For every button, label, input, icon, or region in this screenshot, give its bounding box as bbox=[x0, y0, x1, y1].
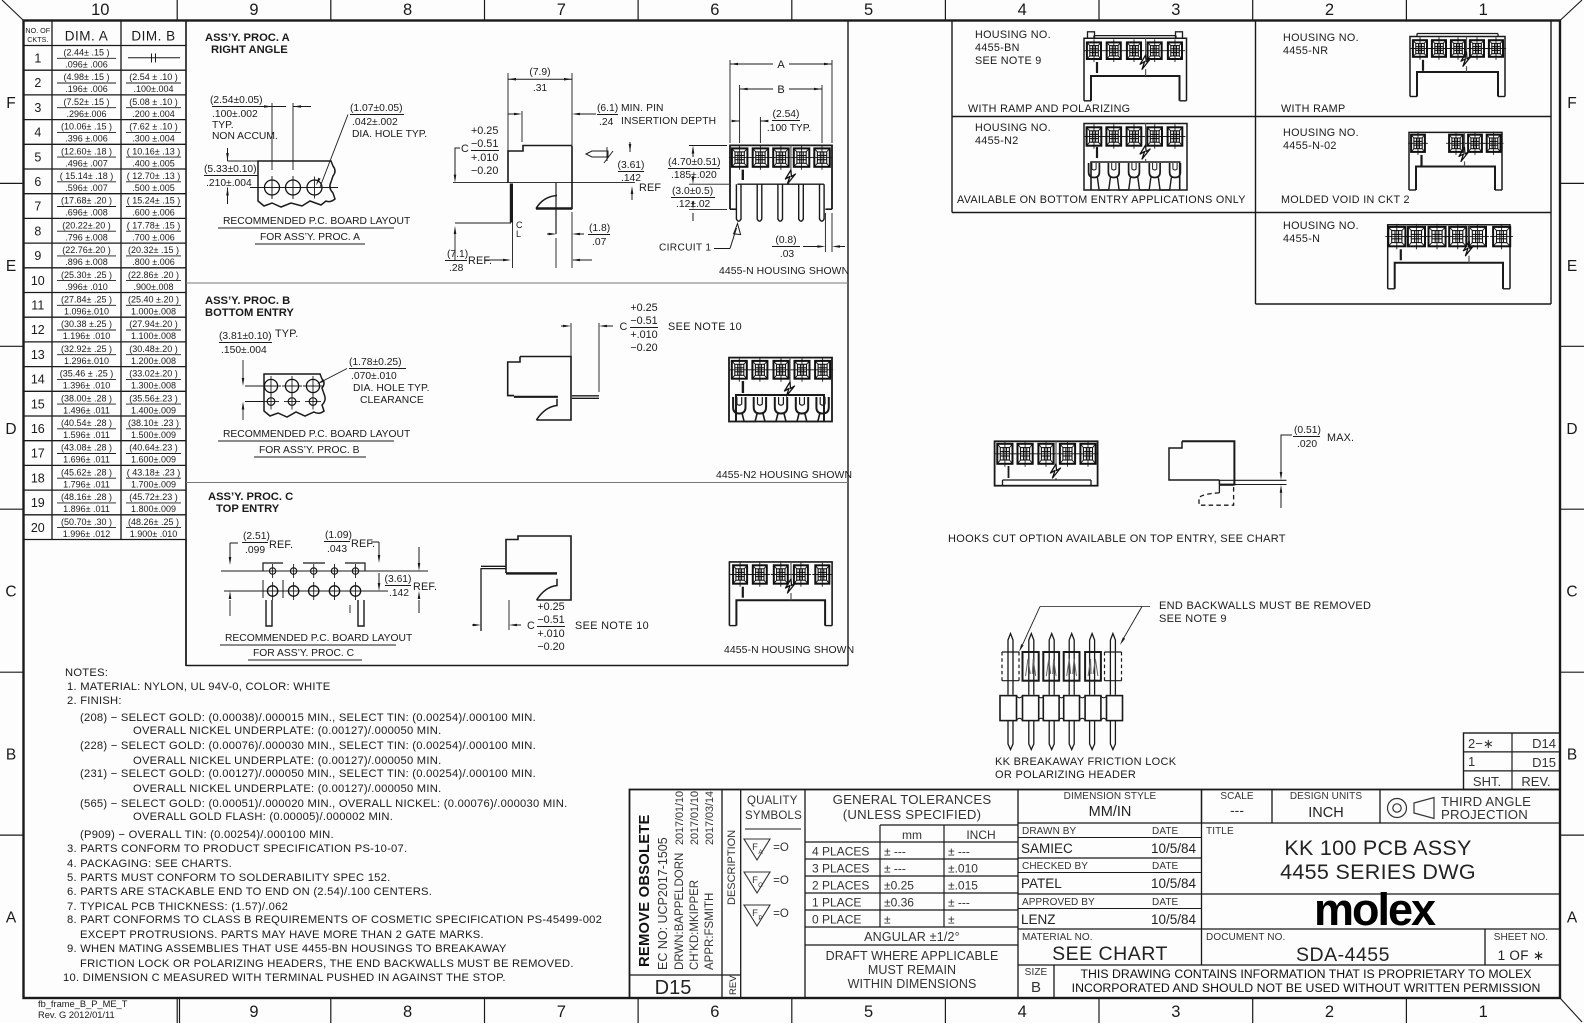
svg-text:1.900± .010: 1.900± .010 bbox=[130, 529, 177, 539]
svg-text:(4.98± .15 ): (4.98± .15 ) bbox=[64, 72, 110, 82]
corner diagonal bottom-right bbox=[1560, 998, 1582, 1022]
pin length arrow bbox=[455, 222, 511, 224]
svg-text:(35.46 ± .25 ): (35.46 ± .25 ) bbox=[60, 369, 113, 379]
svg-text:.800 ±.006: .800 ±.006 bbox=[132, 257, 174, 267]
housing 4455-NR drawing bbox=[1417, 72, 1498, 97]
svg-text:KK BREAKAWAY FRICTION LOCK: KK BREAKAWAY FRICTION LOCK bbox=[995, 756, 1177, 768]
svg-text:WITH RAMP AND POLARIZING: WITH RAMP AND POLARIZING bbox=[968, 103, 1130, 115]
svg-text:.196± .006: .196± .006 bbox=[65, 84, 107, 94]
BN ramp rail bbox=[1094, 35, 1176, 37]
svg-text:.496± .007: .496± .007 bbox=[65, 158, 107, 168]
svg-text:CIRCUIT 1: CIRCUIT 1 bbox=[659, 243, 711, 254]
svg-text:INCH: INCH bbox=[966, 828, 995, 842]
svg-text:D14: D14 bbox=[1532, 736, 1556, 751]
svg-text:.28: .28 bbox=[449, 263, 464, 274]
svg-text:1.596± .011: 1.596± .011 bbox=[63, 430, 110, 440]
svg-text:.100 TYP.: .100 TYP. bbox=[767, 123, 811, 134]
svg-text:CLEARANCE: CLEARANCE bbox=[360, 395, 424, 406]
svg-text:±.010: ±.010 bbox=[948, 862, 978, 876]
svg-text:(7.9): (7.9) bbox=[529, 67, 550, 78]
svg-text:C: C bbox=[5, 584, 16, 601]
svg-text:L: L bbox=[516, 229, 521, 239]
svg-text:E: E bbox=[6, 258, 16, 275]
svg-text:1: 1 bbox=[1479, 1003, 1488, 1021]
shoulder line bbox=[737, 183, 824, 185]
svg-text:(12.60± .18 ): (12.60± .18 ) bbox=[61, 146, 112, 156]
svg-text:2: 2 bbox=[1325, 1003, 1334, 1021]
third angle projection symbol bbox=[1388, 799, 1407, 818]
svg-text:(50.70± .30 ): (50.70± .30 ) bbox=[61, 517, 112, 527]
svg-text:FOR ASS’Y. PROC. A: FOR ASS’Y. PROC. A bbox=[260, 232, 360, 243]
svg-text:10/5/84: 10/5/84 bbox=[1151, 876, 1197, 891]
svg-text:REF.: REF. bbox=[413, 581, 437, 593]
svg-text:D: D bbox=[5, 421, 16, 438]
right arrows rows bbox=[418, 547, 420, 563]
svg-text:−0.20: −0.20 bbox=[537, 641, 564, 653]
svg-text:(38.10± .23 ): (38.10± .23 ) bbox=[128, 418, 179, 428]
svg-text:.020: .020 bbox=[1297, 439, 1317, 450]
hole row centerline bbox=[250, 187, 338, 189]
assembly procedures box bbox=[847, 21, 849, 666]
svg-text:2: 2 bbox=[1325, 1, 1334, 19]
svg-text:(40.54± .28 ): (40.54± .28 ) bbox=[61, 418, 112, 428]
svg-text:3. PARTS CONFORM TO PRODUCT SP: 3. PARTS CONFORM TO PRODUCT SPECIFICATIO… bbox=[67, 843, 407, 855]
svg-text:OVERALL NICKEL UNDERPLATE: (0.: OVERALL NICKEL UNDERPLATE: (0.00127)/.00… bbox=[133, 725, 441, 737]
svg-text:HOUSING NO.: HOUSING NO. bbox=[1283, 32, 1359, 44]
svg-text:1 PLACE: 1 PLACE bbox=[812, 896, 861, 910]
svg-text:±.015: ±.015 bbox=[948, 879, 978, 893]
svg-text:−0.20: −0.20 bbox=[630, 342, 657, 354]
svg-text:DIA. HOLE TYP.: DIA. HOLE TYP. bbox=[353, 383, 430, 394]
bent pin vertical bbox=[555, 183, 557, 234]
svg-text:(20.22±.20 ): (20.22±.20 ) bbox=[62, 220, 110, 230]
svg-text:molex: molex bbox=[1314, 884, 1436, 935]
svg-text:7: 7 bbox=[557, 1003, 566, 1021]
svg-text:.300 ±.004: .300 ±.004 bbox=[132, 134, 174, 144]
svg-text:+.010: +.010 bbox=[630, 329, 657, 341]
svg-text:( 15.14± .18 ): ( 15.14± .18 ) bbox=[60, 171, 113, 181]
svg-text:REF: REF bbox=[639, 182, 661, 194]
NR ramp rail bbox=[1417, 33, 1498, 35]
svg-text:(25.30± .25 ): (25.30± .25 ) bbox=[61, 270, 112, 280]
svg-text:B: B bbox=[6, 747, 16, 764]
svg-text:17: 17 bbox=[31, 447, 45, 461]
svg-text:=O: =O bbox=[773, 875, 789, 887]
svg-text:DATE: DATE bbox=[1152, 826, 1179, 837]
svg-text:.210±.004: .210±.004 bbox=[206, 178, 252, 189]
svg-text:4: 4 bbox=[34, 126, 41, 140]
svg-text:NOTES:: NOTES: bbox=[65, 667, 108, 679]
svg-text:15: 15 bbox=[31, 397, 45, 411]
zone row ticks right bbox=[1560, 182, 1584, 184]
upper small holes bbox=[269, 568, 275, 574]
svg-text:C: C bbox=[758, 882, 763, 889]
header pin 2 bbox=[1029, 634, 1034, 695]
svg-text:SHEET NO.: SHEET NO. bbox=[1494, 932, 1549, 943]
svg-text:−0.51: −0.51 bbox=[471, 138, 498, 150]
revision table bbox=[1464, 733, 1561, 790]
svg-text:(2.51): (2.51) bbox=[243, 531, 270, 542]
svg-text:DOCUMENT NO.: DOCUMENT NO. bbox=[1206, 932, 1285, 943]
svg-text:ASS’Y. PROC. B: ASS’Y. PROC. B bbox=[205, 295, 290, 307]
n2 lower cavity structure bbox=[736, 395, 824, 422]
svg-text:5: 5 bbox=[34, 150, 41, 164]
svg-text:1.996± .012: 1.996± .012 bbox=[63, 529, 110, 539]
svg-text:3: 3 bbox=[1171, 1003, 1180, 1021]
svg-text:3 PLACES: 3 PLACES bbox=[812, 862, 869, 876]
svg-text:(231) − SELECT GOLD: (0.00127): (231) − SELECT GOLD: (0.00127)/.000050 M… bbox=[80, 768, 536, 780]
svg-text:HOUSING NO.: HOUSING NO. bbox=[1283, 127, 1359, 139]
svg-text:DESIGN UNITS: DESIGN UNITS bbox=[1290, 791, 1363, 802]
proc A board layout view bbox=[258, 161, 335, 207]
svg-text:1.396± .010: 1.396± .010 bbox=[63, 381, 110, 391]
svg-text:.396 ±.006: .396 ±.006 bbox=[65, 134, 107, 144]
pcb vertical lines proc C bbox=[480, 568, 482, 631]
svg-text:TOP ENTRY: TOP ENTRY bbox=[216, 503, 280, 515]
svg-text:INCH: INCH bbox=[1308, 805, 1343, 821]
svg-text:(27.84± .25 ): (27.84± .25 ) bbox=[61, 295, 112, 305]
svg-text:±0.36: ±0.36 bbox=[884, 896, 914, 910]
svg-text:7: 7 bbox=[557, 1, 566, 19]
svg-text:(3.61): (3.61) bbox=[618, 160, 645, 171]
clearance holes row bbox=[264, 379, 277, 392]
svg-text:SEE NOTE 9: SEE NOTE 9 bbox=[1159, 613, 1227, 625]
svg-text:2017/03/14: 2017/03/14 bbox=[704, 791, 716, 845]
proc C front view 4455-N bbox=[736, 600, 825, 625]
svg-text:(38.00± .28 ): (38.00± .28 ) bbox=[61, 393, 112, 403]
svg-text:6: 6 bbox=[710, 1, 719, 19]
svg-text:.070±.010: .070±.010 bbox=[351, 371, 397, 382]
hook cut side view bbox=[1182, 441, 1234, 485]
svg-text:RIGHT ANGLE: RIGHT ANGLE bbox=[211, 44, 288, 56]
svg-text:1: 1 bbox=[1468, 754, 1475, 769]
svg-text:(4.70±0.51): (4.70±0.51) bbox=[668, 157, 721, 168]
pcb ref line bbox=[453, 182, 635, 184]
lower big holes bbox=[267, 586, 277, 596]
REV cell bbox=[722, 974, 741, 976]
svg-text:6: 6 bbox=[34, 175, 41, 189]
separator proc B / proc C bbox=[186, 482, 848, 484]
svg-text:1.300±.008: 1.300±.008 bbox=[131, 381, 176, 391]
svg-text:SDA-4455: SDA-4455 bbox=[1296, 944, 1390, 966]
svg-text:16: 16 bbox=[31, 422, 45, 436]
svg-text:SCALE: SCALE bbox=[1220, 791, 1254, 802]
pin insertion depth line bbox=[521, 111, 523, 142]
svg-text:5. PARTS MUST CONFORM TO SOLDE: 5. PARTS MUST CONFORM TO SOLDERABILITY S… bbox=[67, 872, 390, 884]
svg-text:4: 4 bbox=[1018, 1003, 1027, 1021]
svg-text:14: 14 bbox=[31, 373, 45, 387]
svg-text:SEE CHART: SEE CHART bbox=[1052, 943, 1168, 965]
svg-text:.996± .010: .996± .010 bbox=[65, 282, 107, 292]
svg-text:8: 8 bbox=[403, 1003, 412, 1021]
svg-text:3: 3 bbox=[34, 101, 41, 115]
svg-text:4455-N HOUSING SHOWN: 4455-N HOUSING SHOWN bbox=[724, 645, 854, 656]
svg-text:MOLDED VOID IN CKT 2: MOLDED VOID IN CKT 2 bbox=[1281, 194, 1410, 206]
svg-text:4455-N2 HOUSING SHOWN: 4455-N2 HOUSING SHOWN bbox=[716, 470, 852, 481]
svg-text:(6.1): (6.1) bbox=[597, 103, 618, 114]
dim A bbox=[729, 60, 731, 143]
svg-text:4455-NR: 4455-NR bbox=[1283, 45, 1328, 57]
bottom extension lines bbox=[555, 238, 557, 268]
solid backwalls bbox=[1023, 652, 1039, 681]
svg-text:P: P bbox=[758, 915, 762, 922]
svg-text:4455-N-02: 4455-N-02 bbox=[1283, 140, 1337, 152]
separator proc A / proc B bbox=[186, 282, 848, 284]
svg-text:2017/01/10: 2017/01/10 bbox=[674, 791, 686, 845]
zone row ticks left bbox=[0, 182, 24, 184]
svg-text:MATERIAL NO.: MATERIAL NO. bbox=[1022, 932, 1093, 943]
dimension table for DIM A / DIM B bbox=[51, 21, 53, 540]
svg-text:9: 9 bbox=[249, 1003, 258, 1021]
svg-text:4 PLACES: 4 PLACES bbox=[812, 845, 869, 859]
svg-text:( 17.78± .15 ): ( 17.78± .15 ) bbox=[127, 220, 180, 230]
svg-text:4455-N2: 4455-N2 bbox=[975, 135, 1019, 147]
pcb edge lines hooks view bbox=[1219, 479, 1286, 481]
svg-text:4: 4 bbox=[1018, 1, 1027, 19]
svg-text:TITLE: TITLE bbox=[1206, 826, 1234, 837]
svg-text:OVERALL NICKEL UNDERPLATE: (0.: OVERALL NICKEL UNDERPLATE: (0.00127)/.00… bbox=[133, 755, 441, 767]
svg-text:2. FINISH:: 2. FINISH: bbox=[67, 695, 122, 707]
svg-text:−0.51: −0.51 bbox=[630, 315, 657, 327]
svg-text:QUALITY: QUALITY bbox=[747, 795, 798, 807]
leader right backwall bbox=[1122, 607, 1142, 642]
svg-text:5: 5 bbox=[864, 1, 873, 19]
svg-text:(27.94±.20 ): (27.94±.20 ) bbox=[129, 319, 177, 329]
svg-text:WITH RAMP: WITH RAMP bbox=[1281, 103, 1345, 115]
svg-text:3: 3 bbox=[1171, 1, 1180, 19]
svg-text:1.096±.010: 1.096±.010 bbox=[64, 307, 109, 317]
svg-text:(1.8): (1.8) bbox=[589, 223, 610, 234]
svg-text:---: --- bbox=[1230, 802, 1244, 818]
zone column ticks bottom bbox=[176, 998, 178, 1023]
svg-text:1.000±.008: 1.000±.008 bbox=[131, 307, 176, 317]
svg-text:A: A bbox=[1567, 910, 1578, 927]
svg-text:DATE: DATE bbox=[1152, 861, 1179, 872]
svg-text:( 15.24± .15 ): ( 15.24± .15 ) bbox=[127, 196, 180, 206]
break bolt bbox=[790, 145, 792, 170]
svg-text:(2.54 ± .10 ): (2.54 ± .10 ) bbox=[129, 72, 177, 82]
svg-text:.600 ±.006: .600 ±.006 bbox=[132, 208, 174, 218]
svg-text:(7.1): (7.1) bbox=[447, 249, 468, 260]
svg-text:INSERTION DEPTH: INSERTION DEPTH bbox=[621, 116, 716, 127]
svg-text:1.296±.010: 1.296±.010 bbox=[64, 356, 109, 366]
svg-text:± ---: ± --- bbox=[884, 862, 906, 876]
title block column EC bbox=[721, 790, 723, 999]
svg-text:PROJECTION: PROJECTION bbox=[1441, 807, 1528, 822]
corner diagonal top-left bbox=[2, 0, 24, 21]
svg-text:F: F bbox=[6, 95, 15, 112]
svg-text:DIMENSION STYLE: DIMENSION STYLE bbox=[1064, 791, 1157, 802]
svg-text:REMOVE OBSOLETE: REMOVE OBSOLETE bbox=[637, 814, 653, 967]
svg-text:THIS DRAWING CONTAINS INFORMAT: THIS DRAWING CONTAINS INFORMATION THAT I… bbox=[1081, 967, 1532, 981]
svg-text:.500 ±.005: .500 ±.005 bbox=[132, 183, 174, 193]
svg-text:4455-N: 4455-N bbox=[1283, 233, 1320, 245]
pin holes row bbox=[267, 398, 275, 406]
svg-text:A: A bbox=[758, 849, 763, 856]
front view terminal squares bbox=[729, 157, 750, 159]
svg-text:(30.48±.20 ): (30.48±.20 ) bbox=[129, 344, 177, 354]
svg-text:.043: .043 bbox=[327, 544, 347, 555]
svg-text:D: D bbox=[1566, 421, 1577, 438]
housing 4455-N-02 drawing bbox=[1416, 167, 1495, 191]
svg-text:4455 SERIES DWG: 4455 SERIES DWG bbox=[1280, 860, 1476, 884]
svg-text:.099: .099 bbox=[245, 545, 265, 556]
svg-text:.150±.004: .150±.004 bbox=[221, 345, 267, 356]
dim arrows 5.33 bbox=[227, 148, 229, 161]
title block rows bbox=[1018, 822, 1560, 824]
svg-text:(228) − SELECT GOLD: (0.00076): (228) − SELECT GOLD: (0.00076)/.000030 M… bbox=[80, 740, 536, 752]
svg-text:REV: REV bbox=[728, 975, 739, 995]
dim 7.9 top bbox=[507, 73, 509, 151]
svg-text:(40.64±.23 ): (40.64±.23 ) bbox=[129, 443, 177, 453]
svg-text:7: 7 bbox=[34, 200, 41, 214]
svg-text:1: 1 bbox=[1479, 1, 1488, 19]
proc B board layout view bbox=[264, 374, 325, 417]
svg-text:1. MATERIAL: NYLON, UL 94V-0,: 1. MATERIAL: NYLON, UL 94V-0, COLOR: WHI… bbox=[67, 681, 331, 693]
svg-text:10/5/84: 10/5/84 bbox=[1151, 912, 1197, 927]
svg-text:1.696± .011: 1.696± .011 bbox=[63, 455, 110, 465]
svg-text:1.400±.009: 1.400±.009 bbox=[131, 405, 176, 415]
svg-text:HOUSING NO.: HOUSING NO. bbox=[1283, 220, 1359, 232]
svg-text:(30.38 ±.25 ): (30.38 ±.25 ) bbox=[61, 319, 112, 329]
svg-text:2 PLACES: 2 PLACES bbox=[812, 879, 869, 893]
svg-text:(45.62± .28 ): (45.62± .28 ) bbox=[61, 467, 112, 477]
proc A side view housing bbox=[508, 146, 572, 209]
svg-text:RECOMMENDED P.C. BOARD LAYOUT: RECOMMENDED P.C. BOARD LAYOUT bbox=[223, 429, 411, 440]
svg-text:ASS’Y. PROC. C: ASS’Y. PROC. C bbox=[208, 491, 293, 503]
svg-text:.200 ±.004: .200 ±.004 bbox=[132, 109, 174, 119]
svg-text:± ---: ± --- bbox=[884, 845, 906, 859]
svg-text:(43.08± .28 ): (43.08± .28 ) bbox=[61, 443, 112, 453]
circuit 1 tick bbox=[742, 170, 744, 180]
svg-text:C: C bbox=[1566, 584, 1577, 601]
dim B bbox=[739, 85, 741, 143]
title block outline bbox=[630, 790, 1561, 999]
backwall dashed end 2 bbox=[1105, 652, 1122, 681]
svg-text:ANGULAR ±1/2°: ANGULAR ±1/2° bbox=[864, 930, 960, 944]
svg-text:(P909) − OVERALL TIN: (0.00254: (P909) − OVERALL TIN: (0.00254)/.000100 … bbox=[80, 829, 334, 841]
dim 6.1 min pin insertion bbox=[576, 113, 596, 115]
svg-text:SAMIEC: SAMIEC bbox=[1021, 841, 1073, 856]
svg-text:7. TYPICAL PCB THICKNESS: (1.5: 7. TYPICAL PCB THICKNESS: (1.57)/.062 bbox=[67, 901, 288, 913]
lower arrows bbox=[229, 600, 231, 616]
svg-text:.100±.004: .100±.004 bbox=[134, 84, 174, 94]
solder pin thick bbox=[510, 184, 513, 223]
svg-text:DRWN:BAPPELDORN: DRWN:BAPPELDORN bbox=[674, 853, 686, 970]
svg-text:+0.25: +0.25 bbox=[471, 125, 498, 137]
svg-text:(5.33±0.10): (5.33±0.10) bbox=[204, 164, 257, 175]
svg-text:10/5/84: 10/5/84 bbox=[1151, 841, 1197, 856]
svg-text:(17.68± .20 ): (17.68± .20 ) bbox=[61, 196, 112, 206]
svg-text:DIM. B: DIM. B bbox=[131, 29, 175, 44]
holes bbox=[265, 180, 280, 195]
svg-text:2017/01/10: 2017/01/10 bbox=[689, 791, 701, 845]
svg-text:± ---: ± --- bbox=[948, 845, 970, 859]
svg-text:(7.52± .15 ): (7.52± .15 ) bbox=[64, 97, 110, 107]
svg-text:13: 13 bbox=[31, 348, 45, 362]
svg-text:C: C bbox=[461, 143, 469, 155]
svg-text:C: C bbox=[527, 620, 535, 632]
svg-text:.100±.002: .100±.002 bbox=[212, 109, 258, 120]
svg-text:+0.25: +0.25 bbox=[537, 601, 564, 613]
pin symbol small bbox=[586, 151, 608, 157]
proc B side view bbox=[508, 357, 571, 421]
svg-text:fb_frame_B_P_ME_T: fb_frame_B_P_ME_T bbox=[38, 999, 128, 1009]
svg-text:(1.09): (1.09) bbox=[325, 530, 352, 541]
hooks cut housing front view bbox=[995, 441, 1098, 485]
housing 4455-N2 drawing bbox=[1084, 124, 1187, 191]
svg-text:9. WHEN MATING ASSEMBLIES THAT: 9. WHEN MATING ASSEMBLIES THAT USE 4455-… bbox=[67, 943, 507, 955]
svg-text:CKTS.: CKTS. bbox=[27, 35, 48, 44]
svg-text:SIZE: SIZE bbox=[1025, 967, 1048, 978]
svg-text:.31: .31 bbox=[533, 83, 548, 94]
svg-text:=O: =O bbox=[773, 842, 789, 854]
svg-text:(2.54): (2.54) bbox=[773, 109, 800, 120]
svg-text:F: F bbox=[752, 842, 758, 853]
svg-text:2: 2 bbox=[34, 76, 41, 90]
svg-text:INCORPORATED AND SHOULD NOT BE: INCORPORATED AND SHOULD NOT BE USED WITH… bbox=[1072, 981, 1541, 995]
svg-text:OVERALL NICKEL UNDERPLATE: (0.: OVERALL NICKEL UNDERPLATE: (0.00127)/.00… bbox=[133, 783, 441, 795]
quality flag FC bbox=[744, 872, 770, 893]
svg-text:FRICTION LOCK OR POLARIZING HE: FRICTION LOCK OR POLARIZING HEADERS, THE… bbox=[80, 958, 574, 970]
svg-text:DIM. A: DIM. A bbox=[65, 29, 109, 44]
svg-text:mm: mm bbox=[902, 828, 922, 842]
row lines bbox=[221, 570, 428, 572]
svg-text:E: E bbox=[1567, 258, 1577, 275]
svg-text:19: 19 bbox=[31, 496, 45, 510]
svg-text:A: A bbox=[6, 910, 17, 927]
dim 1.8 bottom bbox=[547, 233, 553, 235]
svg-text:ASS’Y. PROC. A: ASS’Y. PROC. A bbox=[205, 32, 290, 44]
svg-text:(208) − SELECT GOLD: (0.00038): (208) − SELECT GOLD: (0.00038)/.000015 M… bbox=[80, 712, 536, 724]
svg-text:MIN. PIN: MIN. PIN bbox=[621, 103, 664, 114]
svg-text:CHECKED BY: CHECKED BY bbox=[1022, 861, 1088, 872]
svg-text:HOUSING NO.: HOUSING NO. bbox=[975, 29, 1051, 41]
pins bbox=[736, 184, 741, 221]
svg-text:4. PACKAGING: SEE CHARTS.: 4. PACKAGING: SEE CHARTS. bbox=[67, 858, 232, 870]
housing outline fragments upper bbox=[263, 563, 283, 571]
proc B front view 4455-N2 bbox=[729, 358, 832, 422]
svg-text:(32.92± .25 ): (32.92± .25 ) bbox=[61, 344, 112, 354]
svg-text:TYP.: TYP. bbox=[212, 120, 234, 131]
svg-text:DRAWN BY: DRAWN BY bbox=[1022, 826, 1077, 837]
svg-text:SEE NOTE 9: SEE NOTE 9 bbox=[975, 55, 1042, 67]
svg-text:(0.8): (0.8) bbox=[775, 235, 796, 246]
svg-text:(565) − SELECT GOLD: (0.00051): (565) − SELECT GOLD: (0.00051)/.000020 M… bbox=[80, 798, 567, 810]
svg-text:DIA. HOLE TYP.: DIA. HOLE TYP. bbox=[352, 129, 427, 140]
svg-text:MAX.: MAX. bbox=[1327, 432, 1354, 444]
svg-text:(3.0±0.5): (3.0±0.5) bbox=[672, 186, 713, 197]
svg-text:11: 11 bbox=[31, 299, 44, 313]
header pin 1 bbox=[1008, 634, 1013, 695]
svg-text:HOOKS CUT OPTION AVAILABLE ON: HOOKS CUT OPTION AVAILABLE ON TOP ENTRY,… bbox=[948, 533, 1286, 545]
svg-text:(5.08 ± .10 ): (5.08 ± .10 ) bbox=[129, 97, 177, 107]
svg-text:1 OF ∗: 1 OF ∗ bbox=[1498, 948, 1545, 963]
svg-text:GENERAL TOLERANCES: GENERAL TOLERANCES bbox=[833, 792, 992, 807]
svg-text:1.496± .011: 1.496± .011 bbox=[63, 405, 110, 415]
svg-text:12: 12 bbox=[31, 323, 45, 337]
svg-text:DRAFT WHERE APPLICABLE: DRAFT WHERE APPLICABLE bbox=[826, 949, 999, 963]
breakaway bases bbox=[1000, 696, 1017, 721]
svg-text:±: ± bbox=[948, 913, 955, 927]
quality flag FA bbox=[744, 839, 770, 860]
svg-text:8: 8 bbox=[34, 224, 41, 238]
svg-text:4455-BN: 4455-BN bbox=[975, 42, 1020, 54]
pin hook arc bbox=[536, 196, 557, 209]
svg-text:KK 100 PCB ASSY: KK 100 PCB ASSY bbox=[1284, 836, 1471, 860]
header pin 6 bbox=[1110, 634, 1115, 695]
svg-text:1: 1 bbox=[34, 52, 41, 66]
